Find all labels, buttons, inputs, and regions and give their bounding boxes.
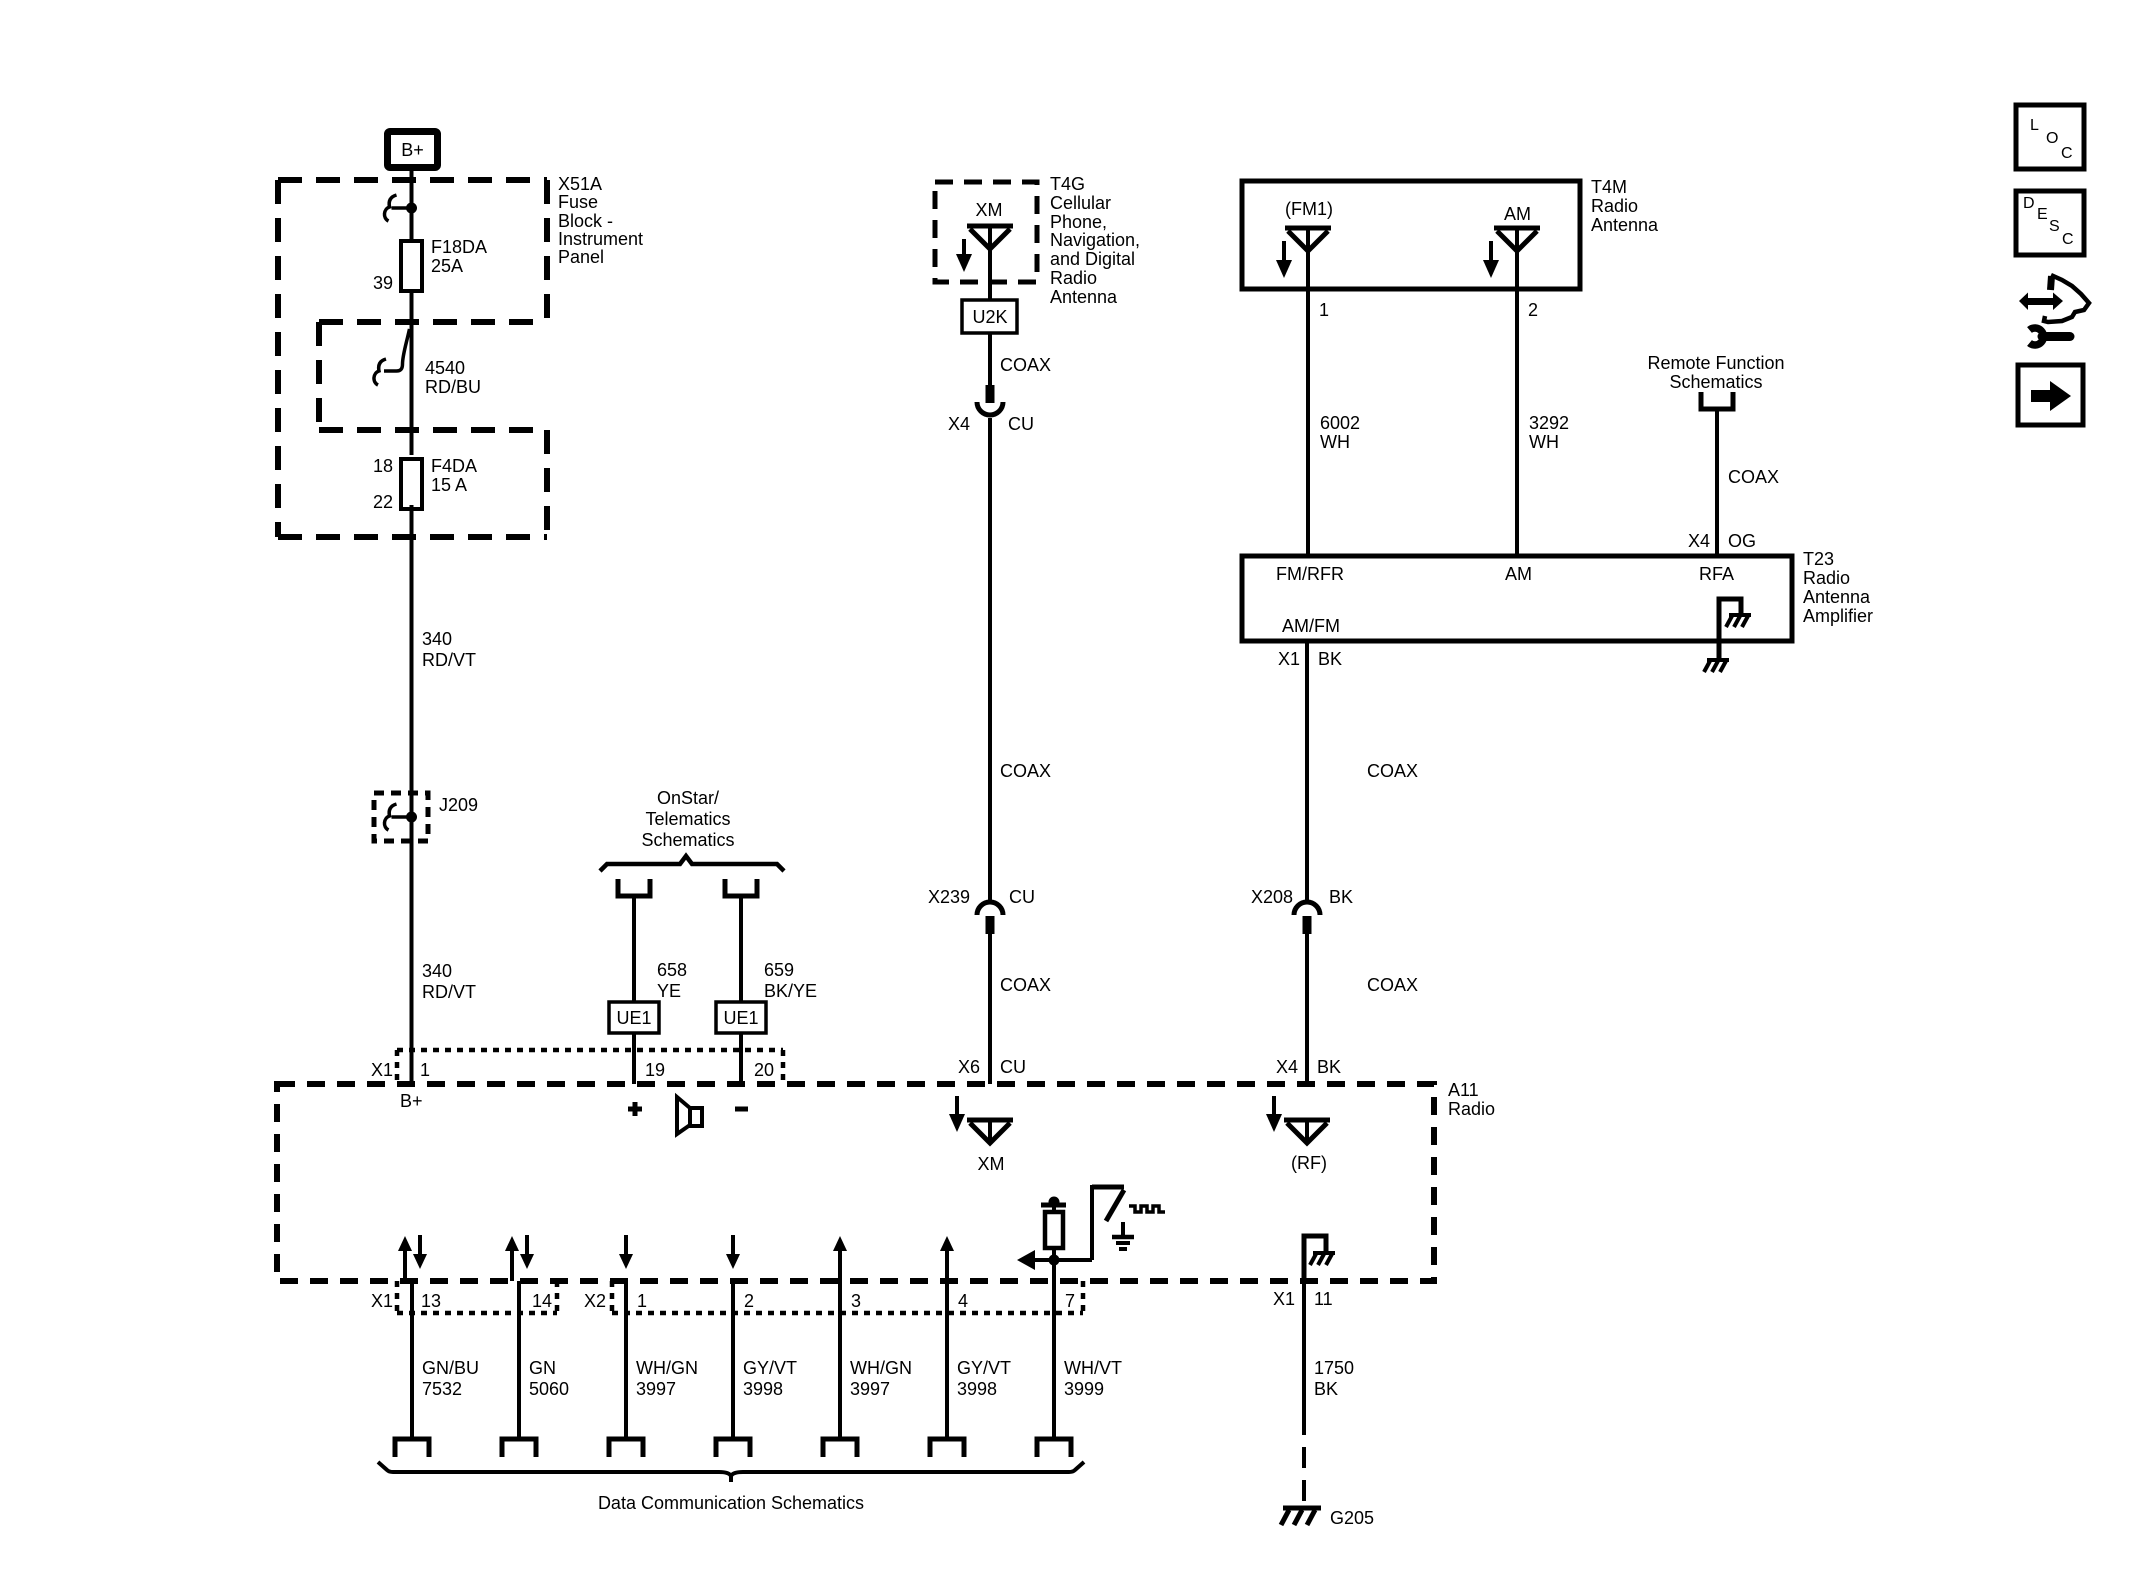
svg-text:F18DA: F18DA	[431, 237, 487, 257]
label XM (T4G antenna)	[976, 200, 1003, 220]
svg-text:Telematics: Telematics	[645, 809, 730, 829]
svg-text:C: C	[2062, 231, 2074, 248]
svg-text:and Digital: and Digital	[1050, 249, 1135, 269]
svg-text:WH/GN: WH/GN	[850, 1358, 912, 1378]
svg-text:X1: X1	[1278, 649, 1300, 669]
svg-text:J209: J209	[439, 795, 478, 815]
wire UE1 right to radio pin 20	[739, 1033, 743, 1084]
antenna symbol FM1	[1285, 228, 1331, 251]
svg-text:6002: 6002	[1320, 413, 1360, 433]
wire 4540 RD/BU terminal branch with clip	[374, 329, 481, 397]
pin 2 label (X2)	[744, 1291, 754, 1311]
svg-text:Remote Function: Remote Function	[1647, 353, 1784, 373]
svg-text:Amplifier: Amplifier	[1803, 606, 1873, 626]
heater element squiggle	[1129, 1206, 1165, 1212]
svg-text:(FM1): (FM1)	[1285, 199, 1333, 219]
svg-text:X1: X1	[1273, 1289, 1295, 1309]
svg-text:11: 11	[1314, 1289, 1333, 1309]
svg-text:X4: X4	[948, 414, 970, 434]
wire antenna to U2K	[988, 249, 992, 300]
fuse block internal splice with hook	[384, 195, 417, 221]
svg-text:1: 1	[1319, 300, 1329, 320]
connector strip X1 (pins 1,19,20) dotted	[397, 1050, 783, 1081]
pin 1 label (X2)	[637, 1291, 647, 1311]
svg-text:Radio: Radio	[1448, 1099, 1495, 1119]
svg-text:T4M: T4M	[1591, 177, 1627, 197]
svg-text:3998: 3998	[743, 1379, 783, 1399]
svg-text:RD/VT: RD/VT	[422, 650, 476, 670]
svg-text:BK: BK	[1329, 887, 1353, 907]
svg-text:RD/VT: RD/VT	[422, 982, 476, 1002]
switch ground symbol	[1112, 1222, 1134, 1249]
fuse block label X51A	[558, 174, 643, 267]
svg-text:COAX: COAX	[1000, 761, 1051, 781]
pin label X1 top	[371, 1060, 393, 1080]
svg-text:F4DA: F4DA	[431, 456, 477, 476]
arrow in pin 1	[619, 1235, 633, 1269]
svg-text:3998: 3998	[957, 1379, 997, 1399]
svg-text:BK: BK	[1317, 1057, 1341, 1077]
label T4M Radio Antenna	[1591, 177, 1659, 235]
coax X239 to radio X6	[990, 933, 1051, 1084]
wire to antenna switch	[1054, 1185, 1124, 1260]
signal arrow down (AM)	[1483, 241, 1499, 278]
svg-text:340: 340	[422, 629, 452, 649]
signal arrow down to XM	[949, 1096, 965, 1132]
arrow into radio at pin 7 wire	[1017, 1250, 1054, 1270]
svg-text:Instrument: Instrument	[558, 229, 643, 249]
ground G205	[1281, 1508, 1374, 1528]
svg-text:GN: GN	[529, 1358, 556, 1378]
signal arrow down (T4G)	[956, 239, 972, 272]
svg-text:COAX: COAX	[1367, 975, 1418, 995]
svg-text:WH: WH	[1529, 432, 1559, 452]
svg-text:Schematics: Schematics	[641, 830, 734, 850]
svg-text:GY/VT: GY/VT	[743, 1358, 797, 1378]
brace over OnStar connectors	[600, 856, 784, 871]
svg-text:UE1: UE1	[616, 1008, 651, 1028]
svg-text:T23: T23	[1803, 549, 1834, 569]
svg-text:4: 4	[958, 1291, 968, 1311]
svg-text:OnStar/: OnStar/	[657, 788, 719, 808]
wire GN 5060 pin 14	[502, 1281, 569, 1457]
splice J209 dashed box	[374, 793, 478, 841]
svg-text:Block -: Block -	[558, 211, 613, 231]
label Data Communication Schematics	[598, 1493, 864, 1513]
icon box LOC	[2016, 105, 2084, 169]
coax X208 to radio X4	[1307, 933, 1418, 1084]
inline connector X208 BK	[1251, 887, 1353, 934]
label OnStar/Telematics Schematics	[641, 788, 734, 850]
svg-text:Phone,: Phone,	[1050, 212, 1107, 232]
svg-text:1: 1	[637, 1291, 647, 1311]
svg-text:CU: CU	[1009, 887, 1035, 907]
wire 1750 BK	[1304, 1281, 1354, 1506]
svg-text:3292: 3292	[1529, 413, 1569, 433]
speaker + polarity symbols	[628, 1097, 748, 1134]
label T4G Cellular Phone Navigation and Digital Radio Antenna	[1050, 174, 1140, 307]
svg-text:RD/BU: RD/BU	[425, 377, 481, 397]
label X4 BK at radio	[1276, 1057, 1341, 1077]
svg-text:AM: AM	[1505, 564, 1532, 584]
fuse F4DA 15A	[373, 456, 477, 512]
antenna symbol (RF) inside radio	[1284, 1120, 1330, 1143]
svg-text:YE: YE	[657, 981, 681, 1001]
connector strip X2 (pins 1,2,3,4,7) dotted	[612, 1281, 1083, 1313]
wire 658 YE	[634, 896, 687, 1002]
svg-text:BK/YE: BK/YE	[764, 981, 817, 1001]
pin label FM/RFR	[1276, 564, 1344, 584]
svg-text:13: 13	[421, 1291, 441, 1311]
antenna feed tap with junction	[1041, 1197, 1066, 1213]
power terminal B+	[388, 132, 438, 168]
svg-text:B+: B+	[401, 140, 424, 160]
svg-text:3997: 3997	[636, 1379, 676, 1399]
arrow out pin 4	[940, 1236, 954, 1281]
svg-text:5060: 5060	[529, 1379, 569, 1399]
svg-text:BK: BK	[1318, 649, 1342, 669]
label AM (T4M)	[1504, 204, 1531, 224]
coax X4 to X239	[990, 418, 1051, 903]
bidirectional arrows pin 13	[398, 1235, 427, 1281]
svg-text:XM: XM	[978, 1154, 1005, 1174]
svg-text:20: 20	[754, 1060, 774, 1080]
svg-text:AM: AM	[1504, 204, 1531, 224]
svg-text:19: 19	[645, 1060, 665, 1080]
svg-text:X1: X1	[371, 1291, 393, 1311]
svg-text:1: 1	[420, 1060, 430, 1080]
coax AM/FM to X208	[1307, 641, 1418, 903]
svg-text:CU: CU	[1008, 414, 1034, 434]
svg-text:S: S	[2049, 218, 2060, 235]
svg-text:WH/GN: WH/GN	[636, 1358, 698, 1378]
svg-text:WH: WH	[1320, 432, 1350, 452]
svg-text:U2K: U2K	[972, 307, 1007, 327]
pin 14 label	[532, 1291, 552, 1311]
svg-text:Navigation,: Navigation,	[1050, 230, 1140, 250]
svg-text:OG: OG	[1728, 531, 1756, 551]
signal arrow down to RF	[1266, 1096, 1282, 1132]
off-page connector to OnStar (left)	[618, 879, 650, 896]
resistor inside radio	[1045, 1212, 1063, 1260]
svg-text:WH/VT: WH/VT	[1064, 1358, 1122, 1378]
junction dot at resistor output	[1049, 1255, 1060, 1266]
svg-text:COAX: COAX	[1367, 761, 1418, 781]
svg-text:Antenna: Antenna	[1803, 587, 1871, 607]
fuse block X51A dashed outline	[278, 180, 547, 537]
wire B+ feed (battery to fuse block)	[410, 171, 414, 241]
label X6 CU at radio	[958, 1057, 1026, 1077]
pin label X1 bottom	[371, 1291, 393, 1311]
svg-text:GN/BU: GN/BU	[422, 1358, 479, 1378]
svg-text:Antenna: Antenna	[1050, 287, 1118, 307]
label X4 OG	[1688, 531, 1756, 551]
svg-text:4540: 4540	[425, 358, 465, 378]
svg-text:GY/VT: GY/VT	[957, 1358, 1011, 1378]
svg-text:B+: B+	[400, 1091, 423, 1111]
svg-text:658: 658	[657, 960, 687, 980]
connector strip X1 bottom (pins 13,14) dotted	[397, 1281, 557, 1313]
pin label AM/FM	[1282, 616, 1340, 636]
label B+ inside radio	[400, 1091, 423, 1111]
bidirectional arrows pin 14	[505, 1235, 534, 1281]
label A11 Radio	[1448, 1080, 1495, 1119]
svg-text:3997: 3997	[850, 1379, 890, 1399]
svg-text:1750: 1750	[1314, 1358, 1354, 1378]
svg-text:C: C	[2061, 145, 2073, 162]
pin label AM (T23)	[1505, 564, 1532, 584]
svg-text:COAX: COAX	[1728, 467, 1779, 487]
svg-text:X6: X6	[958, 1057, 980, 1077]
off-page connector (remote function)	[1701, 392, 1733, 409]
antenna module T4G dashed box	[935, 182, 1037, 282]
wire 340 RD/VT lower	[412, 841, 477, 1084]
antenna module T4M box	[1242, 181, 1580, 289]
svg-text:Radio: Radio	[1803, 568, 1850, 588]
svg-text:3: 3	[851, 1291, 861, 1311]
svg-text:(RF): (RF)	[1291, 1153, 1327, 1173]
svg-text:X239: X239	[928, 887, 970, 907]
off-page connector to OnStar (right)	[725, 879, 757, 896]
wire fuse F18DA to fuse F4DA	[410, 291, 414, 455]
svg-text:2: 2	[1528, 300, 1538, 320]
wire pin7 resistor to radio edge	[1052, 1260, 1056, 1281]
wire 340 RD/VT upper	[412, 505, 477, 793]
svg-text:39: 39	[373, 273, 393, 293]
svg-text:E: E	[2037, 206, 2048, 223]
T23 case ground below box	[1704, 660, 1729, 672]
svg-text:COAX: COAX	[1000, 355, 1051, 375]
svg-text:CU: CU	[1000, 1057, 1026, 1077]
splice J209 hook and junction	[384, 793, 417, 841]
pin 7 label (X2)	[1065, 1291, 1075, 1311]
svg-text:X208: X208	[1251, 887, 1293, 907]
icon vehicle communication exchange with wrench	[2019, 275, 2089, 345]
antenna relay switch blade	[1106, 1190, 1124, 1221]
svg-text:Panel: Panel	[558, 247, 604, 267]
pin label X1 right	[1273, 1289, 1295, 1309]
svg-text:Fuse: Fuse	[558, 192, 598, 212]
svg-text:18: 18	[373, 456, 393, 476]
svg-text:X1: X1	[371, 1060, 393, 1080]
icon box DESC	[2016, 191, 2084, 255]
svg-text:Radio: Radio	[1050, 268, 1097, 288]
svg-text:COAX: COAX	[1000, 975, 1051, 995]
wire UE1 left to radio pin 19	[632, 1033, 636, 1084]
svg-text:2: 2	[744, 1291, 754, 1311]
svg-text:15 A: 15 A	[431, 475, 467, 495]
pin label RFA	[1699, 564, 1734, 584]
svg-text:Radio: Radio	[1591, 196, 1638, 216]
svg-text:X51A: X51A	[558, 174, 602, 194]
pin 4 label (X2)	[958, 1291, 968, 1311]
wire 6002 WH pin 1	[1308, 251, 1360, 556]
inline connector X4 CU	[948, 385, 1034, 434]
svg-text:25A: 25A	[431, 256, 463, 276]
svg-text:G205: G205	[1330, 1508, 1374, 1528]
svg-text:RFA: RFA	[1699, 564, 1734, 584]
antenna symbol AM	[1494, 228, 1540, 251]
fuse F18DA 25A	[373, 237, 487, 293]
svg-text:7532: 7532	[422, 1379, 462, 1399]
svg-text:X4: X4	[1688, 531, 1710, 551]
pin 19 label	[645, 1060, 665, 1080]
brace data communication	[378, 1462, 1084, 1482]
option code UE1 (right)	[716, 1002, 766, 1033]
svg-text:T4G: T4G	[1050, 174, 1085, 194]
svg-text:Cellular: Cellular	[1050, 193, 1111, 213]
pin label X2	[584, 1291, 606, 1311]
label XM inside radio	[978, 1154, 1005, 1174]
wire GN/BU 7532 pin 13	[395, 1281, 479, 1457]
amplifier T23 box	[1242, 556, 1792, 641]
svg-text:L: L	[2030, 117, 2039, 134]
arrow out pin 3	[833, 1236, 847, 1281]
pin 13 label	[421, 1291, 441, 1311]
option code U2K	[962, 300, 1017, 333]
svg-text:7: 7	[1065, 1291, 1075, 1311]
svg-text:Data Communication Schematics: Data Communication Schematics	[598, 1493, 864, 1513]
pin 11 label	[1314, 1289, 1333, 1309]
pin 1 label	[420, 1060, 430, 1080]
label T23 Radio Antenna Amplifier	[1803, 549, 1873, 626]
label Remote Function Schematics	[1647, 353, 1784, 392]
antenna symbol XM in T4G	[967, 226, 1013, 249]
arrow in pin 2	[726, 1235, 740, 1269]
wire WH/GN 3997 pin 3	[823, 1281, 912, 1457]
label X1 BK under T23	[1278, 649, 1342, 669]
svg-text:Antenna: Antenna	[1591, 215, 1659, 235]
radio internal ground loop	[1304, 1236, 1335, 1281]
wire 659 BK/YE	[741, 896, 817, 1002]
svg-text:340: 340	[422, 961, 452, 981]
svg-text:X4: X4	[1276, 1057, 1298, 1077]
icon box forward arrow	[2018, 365, 2083, 425]
wire WH/VT 3999 pin 7	[1037, 1281, 1122, 1457]
T23 internal ground	[1719, 599, 1751, 658]
svg-text:X2: X2	[584, 1291, 606, 1311]
wire 3292 WH pin 2	[1517, 251, 1569, 556]
svg-text:BK: BK	[1314, 1379, 1338, 1399]
option code UE1 (left)	[609, 1002, 659, 1033]
coax U2K to connector X4	[990, 333, 1051, 385]
svg-text:D: D	[2023, 195, 2035, 212]
svg-text:659: 659	[764, 960, 794, 980]
svg-text:Schematics: Schematics	[1669, 372, 1762, 392]
coax RFA	[1717, 409, 1779, 556]
svg-text:14: 14	[532, 1291, 552, 1311]
label (FM1)	[1285, 199, 1333, 219]
wire GY/VT 3998 pin 2	[716, 1281, 797, 1457]
radio A11 dashed box	[277, 1084, 1434, 1281]
pin 3 label (X2)	[851, 1291, 861, 1311]
inline connector X239 CU	[928, 887, 1035, 934]
svg-text:UE1: UE1	[723, 1008, 758, 1028]
antenna symbol XM inside radio	[967, 1120, 1013, 1143]
svg-text:AM/FM: AM/FM	[1282, 616, 1340, 636]
signal arrow down (FM1)	[1276, 241, 1292, 278]
svg-text:22: 22	[373, 492, 393, 512]
svg-text:3999: 3999	[1064, 1379, 1104, 1399]
svg-text:A11: A11	[1448, 1080, 1479, 1100]
svg-text:FM/RFR: FM/RFR	[1276, 564, 1344, 584]
label (RF)	[1291, 1153, 1327, 1173]
svg-text:O: O	[2046, 130, 2058, 147]
wire WH/GN 3997 pin 1	[609, 1281, 698, 1457]
svg-text:XM: XM	[976, 200, 1003, 220]
wire GY/VT 3998 pin 4	[930, 1281, 1011, 1457]
pin 20 label	[754, 1060, 774, 1080]
